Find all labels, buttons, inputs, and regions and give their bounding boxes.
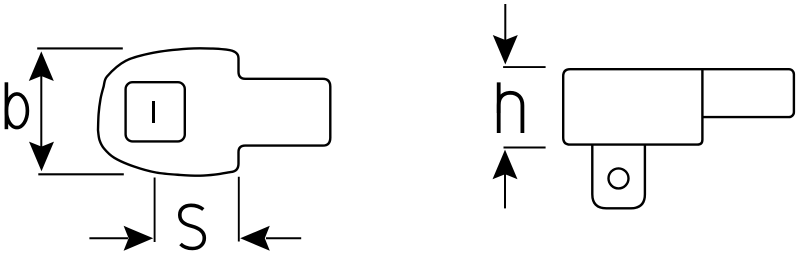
dimension b up arrowhead [29, 51, 54, 81]
dimension h bottom arrowhead [493, 150, 518, 180]
dimension S left arrow shaft [89, 237, 128, 239]
dimension b shaft [40, 55, 42, 168]
label b [6, 82, 27, 129]
square drive opening [126, 82, 185, 141]
dimension S right arrow shaft [266, 237, 301, 239]
dimension b down arrowhead [29, 142, 54, 172]
right view: head block (side) [563, 69, 702, 144]
label h [499, 82, 523, 133]
right view: drive tang [696, 69, 794, 117]
dimension b top extension line [37, 47, 123, 49]
dimension h bottom tick [504, 147, 546, 149]
right view: locking pin tab [592, 140, 645, 208]
square center tick [152, 101, 155, 123]
dimension S right extension line [238, 177, 240, 242]
left view: insert tool head outline [98, 48, 330, 175]
dimension h bottom arrow shaft [504, 174, 506, 208]
dimension S left extension line [154, 178, 156, 243]
dimension h top arrow shaft [504, 4, 506, 40]
dimension h top arrowhead [493, 35, 518, 65]
label S [180, 205, 205, 248]
dimension S left arrowhead [124, 226, 154, 251]
dimension h top tick [503, 66, 545, 68]
pin hole [609, 168, 629, 188]
dimension b bottom extension line [38, 173, 124, 175]
dimension S right arrowhead [240, 226, 270, 251]
